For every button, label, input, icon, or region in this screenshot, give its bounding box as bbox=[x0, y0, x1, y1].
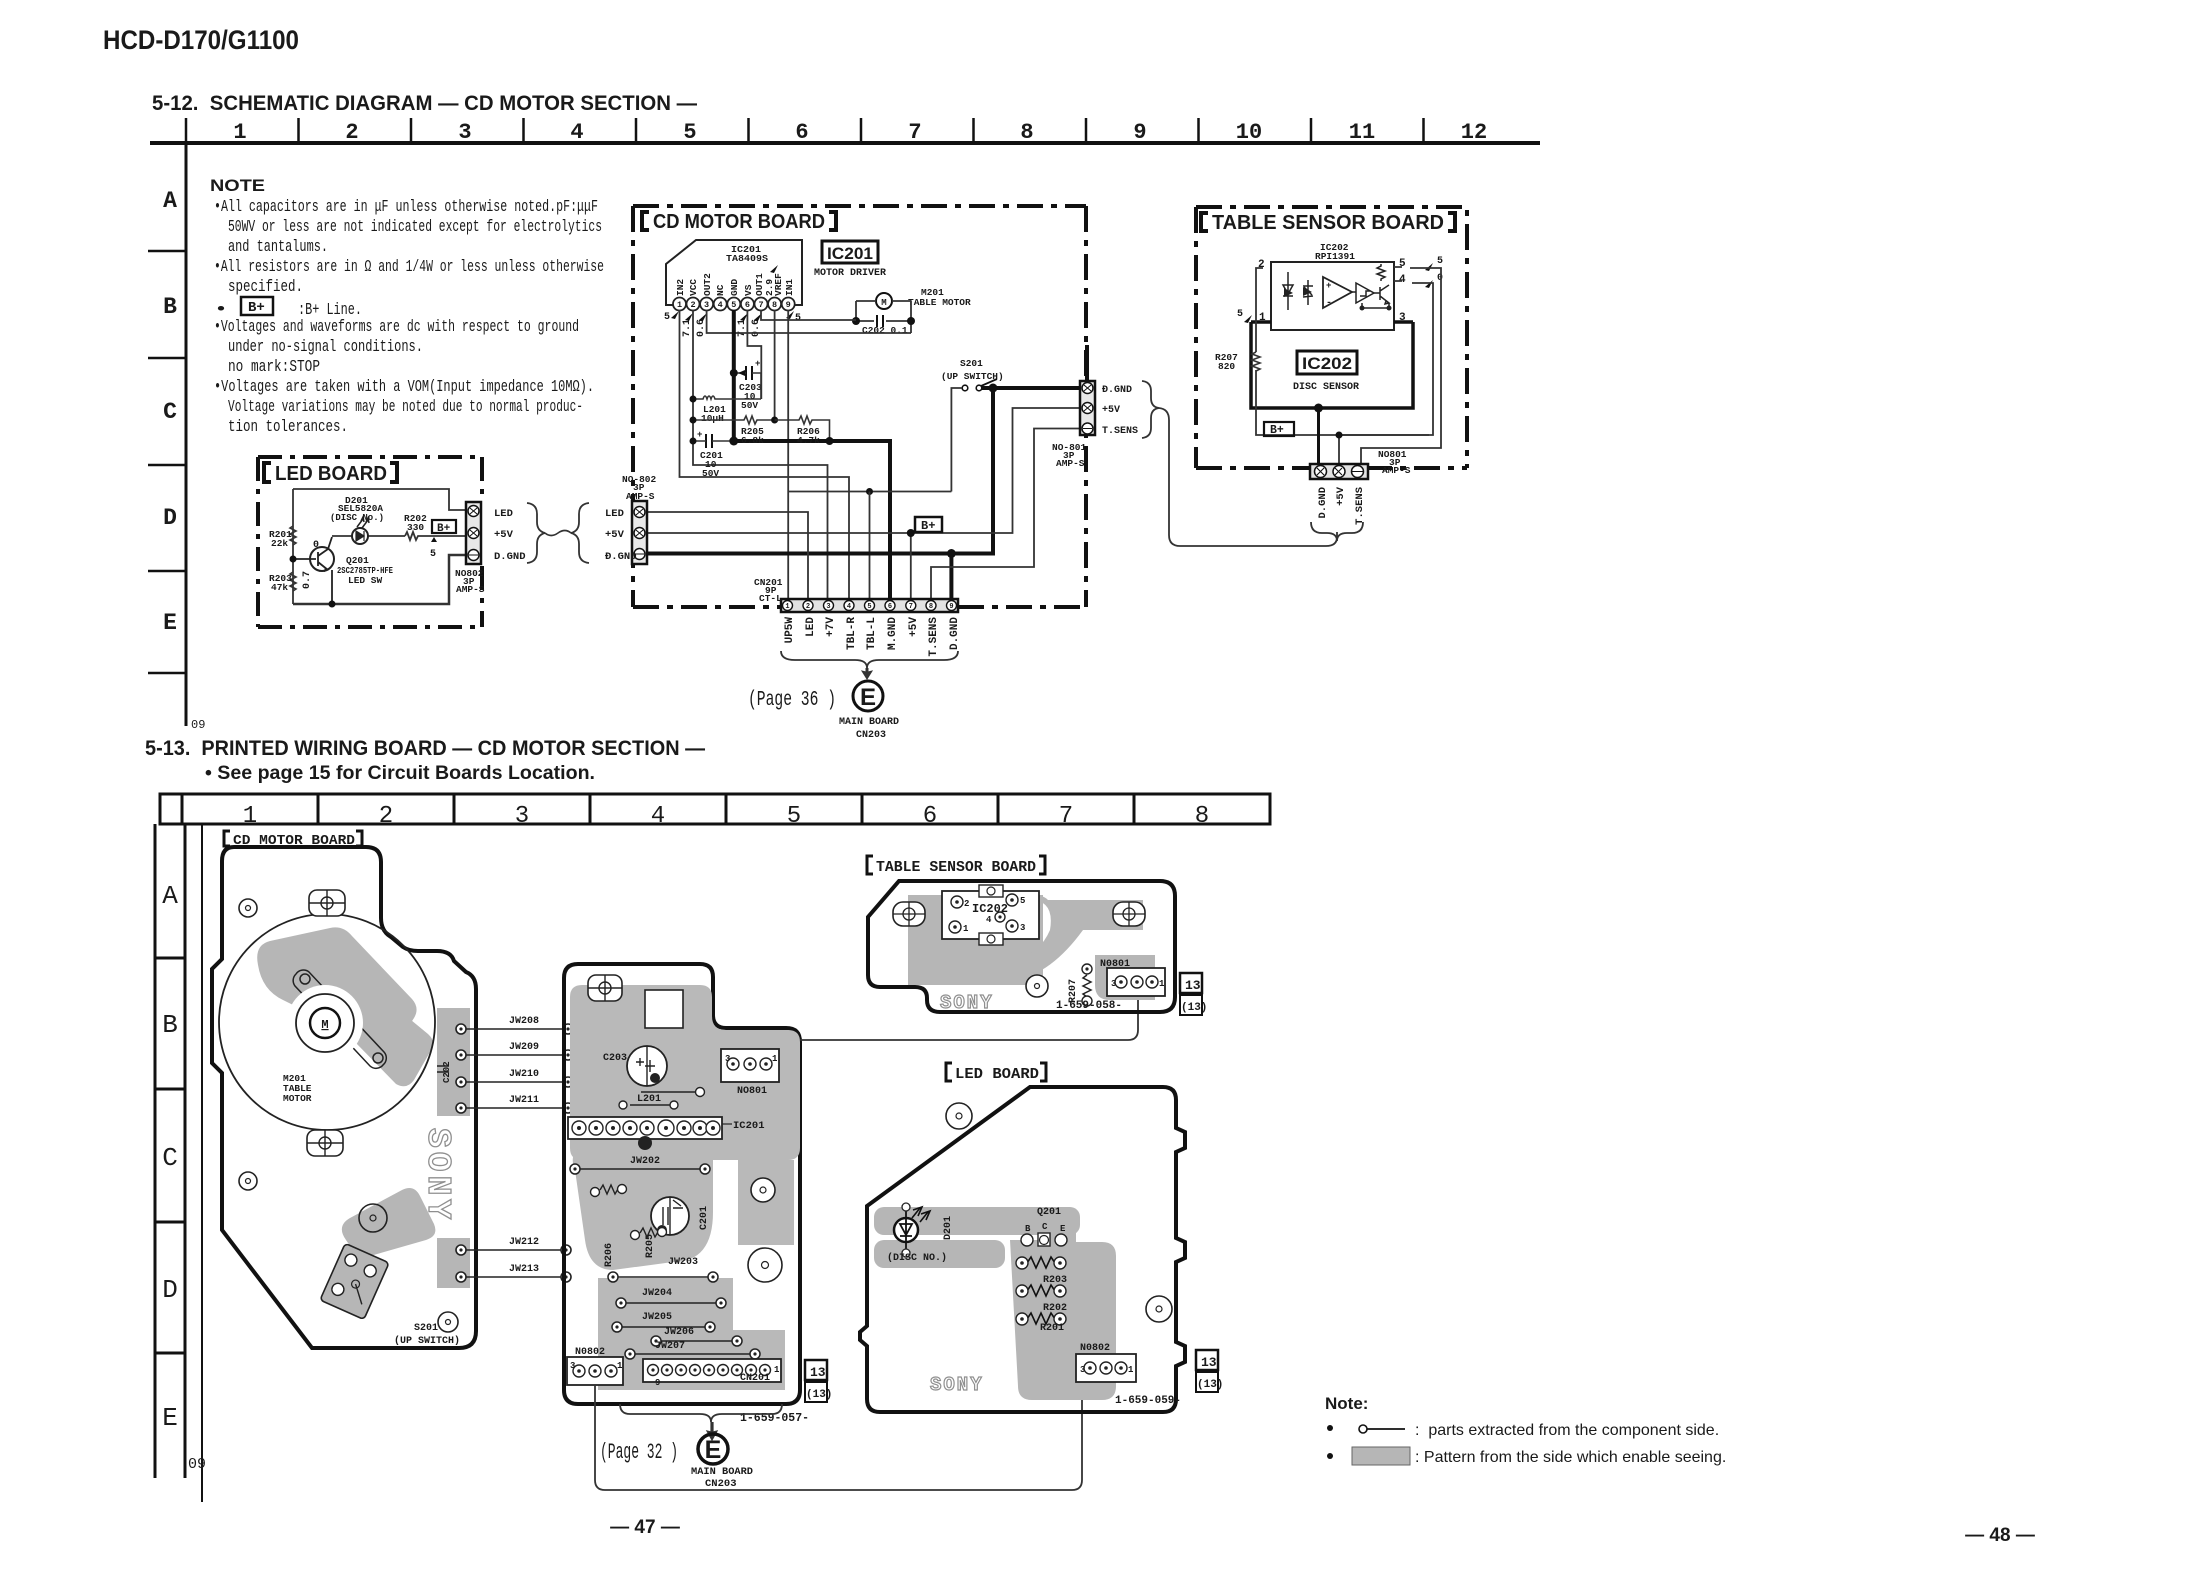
resistor R207 bbox=[1252, 352, 1260, 371]
wire pin7 OUT1 to motor bbox=[761, 310, 856, 320]
legend bullet 2 pattern bbox=[1327, 1453, 1333, 1459]
svg-text:M: M bbox=[321, 1018, 328, 1032]
B+ box table sensor bbox=[1264, 422, 1294, 436]
svg-text:3: 3 bbox=[704, 300, 709, 310]
svg-text:T.SENS: T.SENS bbox=[928, 617, 940, 657]
svg-text:C203: C203 bbox=[603, 1053, 627, 1064]
svg-text:4: 4 bbox=[651, 803, 665, 830]
table sensor copper pattern bbox=[908, 895, 1155, 1000]
svg-text:4: 4 bbox=[1399, 274, 1406, 286]
LED D201 bbox=[332, 535, 405, 537]
svg-text:12: 12 bbox=[1461, 120, 1487, 145]
svg-text:3: 3 bbox=[1111, 979, 1116, 989]
svg-text:E: E bbox=[860, 684, 876, 711]
svg-text:E: E bbox=[1060, 1224, 1066, 1234]
svg-text:10: 10 bbox=[1236, 120, 1262, 145]
connector NO-801 3P bbox=[1080, 381, 1095, 435]
D.GND bold stub above NO-801 bbox=[1085, 345, 1089, 382]
svg-text:JW202: JW202 bbox=[630, 1156, 660, 1167]
svg-text:VCC: VCC bbox=[688, 279, 699, 296]
svg-text:(DISC No.): (DISC No.) bbox=[330, 512, 384, 523]
svg-text:2: 2 bbox=[345, 120, 358, 145]
svg-text:+5V: +5V bbox=[1102, 405, 1120, 416]
svg-text:S201: S201 bbox=[414, 1323, 438, 1334]
svg-text:B: B bbox=[163, 294, 177, 320]
svg-text:330: 330 bbox=[407, 522, 424, 533]
connector CN201 pcb strip bbox=[643, 1359, 781, 1382]
resistor R203 bbox=[290, 572, 296, 591]
svg-text:10μH: 10μH bbox=[701, 413, 724, 424]
svg-text:9: 9 bbox=[786, 300, 791, 310]
svg-text:13: 13 bbox=[1201, 1355, 1217, 1370]
NOTE bullet text bbox=[214, 197, 604, 436]
svg-text:5-13. PRINTED WIRING BOARD —: 5-13. PRINTED WIRING BOARD — CD MOTOR SE… bbox=[145, 737, 705, 760]
svg-text:0.7: 0.7 bbox=[302, 571, 313, 589]
cable brace right of NO-801 bbox=[1142, 381, 1159, 438]
svg-text:1: 1 bbox=[963, 924, 969, 934]
13 flag boxes LED board bbox=[1196, 1350, 1218, 1370]
svg-text:T.SENS: T.SENS bbox=[1354, 487, 1366, 525]
svg-text:Q201: Q201 bbox=[1037, 1207, 1061, 1218]
motor M201 hub bbox=[287, 985, 363, 1061]
svg-text:2: 2 bbox=[1258, 259, 1265, 271]
svg-text:under no-signal conditions.: under no-signal conditions. bbox=[228, 337, 423, 356]
jumper JW-internal above IC201 bbox=[641, 1091, 700, 1093]
svg-text:50WV or less are not indicated: 50WV or less are not indicated except fo… bbox=[228, 217, 602, 236]
svg-text:5: 5 bbox=[795, 313, 801, 324]
svg-text:5: 5 bbox=[664, 312, 670, 323]
svg-text:UP5W: UP5W bbox=[784, 617, 796, 644]
middle pcb copper pattern bbox=[570, 985, 800, 1390]
svg-text:D: D bbox=[162, 1275, 178, 1305]
svg-text:7: 7 bbox=[909, 603, 913, 611]
svg-text:— 47 —: — 47 — bbox=[610, 1517, 680, 1538]
svg-text:M.GND: M.GND bbox=[887, 617, 899, 650]
svg-text:NC: NC bbox=[715, 284, 726, 296]
top ruler numbers 1-12 bbox=[233, 120, 1487, 145]
svg-text:5: 5 bbox=[1237, 309, 1243, 320]
svg-text:8: 8 bbox=[929, 603, 933, 611]
svg-text:3: 3 bbox=[1020, 923, 1025, 933]
left rail wire pin2 bbox=[1256, 268, 1429, 435]
svg-text:9: 9 bbox=[949, 603, 953, 611]
capacitor C203 pcb circle bbox=[627, 1046, 667, 1086]
legend bullet 1 parts extracted bbox=[1327, 1425, 1333, 1431]
svg-text:C: C bbox=[162, 1143, 178, 1173]
resistor R202 bbox=[405, 532, 466, 540]
svg-text:LED BOARD: LED BOARD bbox=[275, 463, 387, 485]
svg-text:9: 9 bbox=[655, 1378, 660, 1388]
svg-text:LED: LED bbox=[494, 508, 513, 520]
motor loop wires bbox=[856, 301, 911, 333]
svg-text:5-12. SCHEMATIC DIAGRAM — CD: 5-12. SCHEMATIC DIAGRAM — CD MOTOR SECTI… bbox=[152, 92, 697, 115]
wire UPSW row bbox=[788, 491, 951, 493]
bottom left ruler letters band bbox=[155, 824, 185, 1478]
svg-text:(Page 32 ): (Page 32 ) bbox=[600, 1440, 678, 1465]
svg-text:JW205: JW205 bbox=[642, 1312, 672, 1323]
connector NO-802 3P bbox=[632, 501, 647, 564]
connector NO801 3P bottom bbox=[1310, 464, 1368, 479]
svg-text:JW213: JW213 bbox=[509, 1264, 539, 1275]
table motor big circle bbox=[219, 914, 435, 1130]
LED BOARD dashed border bbox=[258, 457, 482, 627]
svg-text:2: 2 bbox=[806, 603, 810, 611]
svg-text:•All resistors are in Ω and 1/: •All resistors are in Ω and 1/4W or less… bbox=[214, 257, 604, 276]
svg-text:LED: LED bbox=[805, 617, 817, 637]
svg-text:6: 6 bbox=[923, 803, 937, 830]
wire pin2 VCC to CN201 pin3 +7V bbox=[693, 310, 828, 599]
svg-text:13: 13 bbox=[810, 1365, 826, 1380]
CD MOTOR BOARD dashed border bbox=[633, 206, 1086, 607]
svg-text:4.7k: 4.7k bbox=[797, 435, 820, 446]
svg-text:M: M bbox=[881, 298, 886, 308]
capacitor C203 bbox=[746, 366, 752, 380]
LED board pcb outline bbox=[860, 1087, 1185, 1412]
svg-text:7.1: 7.1 bbox=[737, 319, 748, 337]
svg-text:IC201: IC201 bbox=[827, 244, 873, 263]
svg-text:JW210: JW210 bbox=[509, 1069, 539, 1080]
pcb hole right-bottom bbox=[438, 1312, 458, 1332]
svg-text:+: + bbox=[697, 430, 702, 440]
svg-text:• See page 15 for Circuit Boar: • See page 15 for Circuit Boards Locatio… bbox=[205, 763, 595, 784]
svg-text:1-659-058-: 1-659-058- bbox=[1056, 1000, 1122, 1012]
wire NO802 middle board to LED board NO802 bbox=[595, 1383, 1082, 1490]
svg-text:TBL-L: TBL-L bbox=[866, 617, 878, 650]
wire TBL-L branch to CN201 pin5 bbox=[869, 492, 871, 600]
pwb margin line bbox=[201, 824, 203, 1502]
svg-text:5: 5 bbox=[1399, 258, 1406, 270]
svg-text:TBL-R: TBL-R bbox=[846, 617, 858, 650]
svg-text:•All capacitors are in μF unle: •All capacitors are in μF unless otherwi… bbox=[214, 197, 598, 216]
pcb hole right middle bbox=[751, 1178, 775, 1202]
svg-text:B+: B+ bbox=[248, 300, 265, 316]
svg-text:5: 5 bbox=[430, 549, 436, 560]
brace under NO801 bbox=[1311, 522, 1363, 541]
svg-text:4: 4 bbox=[718, 300, 723, 310]
svg-text:tion tolerances.: tion tolerances. bbox=[228, 417, 348, 436]
svg-text:•Voltages are taken with a VOM: •Voltages are taken with a VOM(Input imp… bbox=[214, 377, 594, 396]
resistor R201 pcb bbox=[1027, 1313, 1055, 1324]
+5V net NO-802 pin2 to NO-801 pin2 and CN201 pin7 bbox=[646, 408, 1082, 533]
svg-text:1: 1 bbox=[1159, 979, 1165, 989]
svg-text:+5V: +5V bbox=[605, 529, 625, 541]
opto internals: LED diode bbox=[1283, 272, 1293, 310]
wire pin9 IN1 to CN201 pin1 UPSW bbox=[787, 310, 789, 599]
svg-text:NOTE: NOTE bbox=[210, 176, 265, 195]
svg-text:JW212: JW212 bbox=[509, 1237, 539, 1248]
resistor R205 bbox=[693, 416, 775, 424]
junction dots motor bbox=[852, 317, 860, 325]
svg-text:no mark:STOP: no mark:STOP bbox=[228, 357, 320, 376]
bottom ruler band bbox=[160, 794, 1270, 824]
LED board copper pattern bbox=[874, 1207, 1116, 1400]
voltage 5 arrow bbox=[431, 537, 437, 542]
svg-text:2: 2 bbox=[690, 300, 695, 310]
svg-text:(Page 36 ): (Page 36 ) bbox=[748, 689, 836, 712]
svg-text:R206: R206 bbox=[604, 1243, 615, 1267]
svg-text:5: 5 bbox=[1020, 896, 1025, 906]
svg-text:LED: LED bbox=[605, 508, 624, 520]
svg-text:2: 2 bbox=[379, 803, 393, 830]
pcb hole LED board top bbox=[946, 1103, 972, 1129]
resistor R201 bbox=[290, 526, 296, 545]
svg-text:Đ.GND: Đ.GND bbox=[1102, 385, 1132, 396]
NO801 signal labels rotated bbox=[1317, 486, 1366, 525]
svg-text:CT-L: CT-L bbox=[759, 593, 782, 604]
pcb hole right lower bbox=[748, 1248, 782, 1282]
svg-text:6: 6 bbox=[795, 120, 808, 145]
svg-text:1: 1 bbox=[772, 1054, 778, 1064]
pcb hole top-left bbox=[239, 899, 257, 917]
svg-text:AMP-S: AMP-S bbox=[456, 584, 485, 595]
wire pin5 GND bold to CN201 pin6 M.GND bbox=[734, 310, 890, 599]
wire pin1 IN2 to CN201 pin4 TBL-R bbox=[680, 310, 850, 599]
svg-text:N0802: N0802 bbox=[1080, 1343, 1110, 1354]
resistor R202 pcb bbox=[1027, 1285, 1055, 1296]
svg-text:09: 09 bbox=[191, 718, 205, 732]
svg-text:JW209: JW209 bbox=[509, 1042, 539, 1053]
svg-text:09: 09 bbox=[188, 1456, 206, 1473]
svg-text:3: 3 bbox=[458, 120, 471, 145]
svg-text:+7V: +7V bbox=[825, 617, 837, 637]
capacitor C203 drop wire bbox=[760, 373, 762, 399]
svg-text:N0801: N0801 bbox=[1100, 959, 1130, 970]
svg-text:7: 7 bbox=[758, 300, 763, 310]
svg-text:RPI1391: RPI1391 bbox=[1315, 251, 1355, 262]
svg-text:N0802: N0802 bbox=[575, 1347, 605, 1358]
IC201 pcb pad strip bbox=[568, 1117, 722, 1139]
middle pcb screw mount bbox=[588, 975, 622, 1001]
TABLE SENSOR BOARD dashed border bbox=[1196, 207, 1467, 468]
svg-text:IN2: IN2 bbox=[675, 279, 686, 296]
svg-text:LED BOARD: LED BOARD bbox=[955, 1066, 1039, 1083]
svg-text:TA8409S: TA8409S bbox=[726, 254, 769, 264]
middle pcb IC area rect bbox=[645, 990, 683, 1028]
svg-text:DISC SENSOR: DISC SENSOR bbox=[1293, 381, 1360, 393]
svg-text:NO801: NO801 bbox=[737, 1086, 767, 1097]
svg-text:VREF: VREF bbox=[773, 273, 784, 296]
CD MOTOR BOARD title bbox=[642, 212, 836, 230]
LED BOARD pcb title bbox=[946, 1063, 1046, 1081]
svg-text:50V: 50V bbox=[741, 400, 758, 411]
svg-text:22k: 22k bbox=[271, 538, 288, 549]
svg-text:AMP-S: AMP-S bbox=[1056, 458, 1085, 469]
screw pad left bbox=[893, 902, 925, 926]
D.GND bold net S201 to NO-801 and CN201 pin9 bbox=[982, 386, 1082, 390]
svg-text:4: 4 bbox=[986, 915, 992, 925]
svg-text:D.GND: D.GND bbox=[494, 551, 526, 563]
LED D201 pcb bbox=[894, 1218, 918, 1242]
svg-text:IC201: IC201 bbox=[733, 1120, 765, 1132]
svg-text:D.GND: D.GND bbox=[949, 617, 961, 650]
svg-text:C201: C201 bbox=[699, 1206, 710, 1230]
left ruler letters A-E bbox=[163, 188, 177, 636]
svg-text:JW211: JW211 bbox=[509, 1095, 539, 1106]
svg-text:1: 1 bbox=[677, 300, 682, 310]
cable wire to table sensor board bbox=[1159, 408, 1337, 546]
svg-text:7: 7 bbox=[908, 120, 921, 145]
svg-text:MOTOR DRIVER: MOTOR DRIVER bbox=[814, 267, 887, 279]
svg-text:8: 8 bbox=[772, 300, 777, 310]
screw pad right bbox=[1113, 902, 1145, 926]
svg-text:3: 3 bbox=[826, 603, 830, 611]
svg-text:5: 5 bbox=[787, 803, 801, 830]
svg-text:(UP SWITCH): (UP SWITCH) bbox=[394, 1335, 460, 1347]
svg-text:C: C bbox=[163, 399, 177, 425]
hole table sensor bbox=[1026, 975, 1048, 997]
svg-text:E: E bbox=[162, 1403, 178, 1433]
svg-text:1: 1 bbox=[774, 1365, 780, 1375]
wire S201 left leg to UPSW row bbox=[951, 388, 962, 492]
wire NO801 middle board to table sensor NO801 bbox=[800, 1000, 1138, 1040]
svg-text:47k: 47k bbox=[271, 582, 288, 593]
svg-text:5: 5 bbox=[1437, 256, 1443, 267]
wire pin6 VS jog bbox=[747, 310, 761, 399]
svg-text:— 48 —: — 48 — bbox=[1965, 1525, 2035, 1546]
svg-text:(13): (13) bbox=[1181, 1002, 1207, 1014]
svg-text:B+: B+ bbox=[921, 519, 935, 533]
svg-text:B+: B+ bbox=[437, 523, 451, 535]
svg-text:+: + bbox=[1326, 281, 1331, 291]
left ruler vertical line bbox=[185, 143, 188, 726]
svg-text:SONY: SONY bbox=[930, 1374, 984, 1396]
svg-text:TABLE SENSOR BOARD: TABLE SENSOR BOARD bbox=[876, 859, 1036, 876]
svg-text:VS: VS bbox=[743, 284, 754, 296]
connector NO802 3P LED board bbox=[466, 502, 481, 564]
inductor L201 bbox=[693, 396, 761, 399]
svg-text:13: 13 bbox=[1185, 978, 1201, 993]
svg-text:MOTOR: MOTOR bbox=[283, 1093, 312, 1104]
LED net NO-802 pin3 to CN201 pin2 bbox=[646, 512, 808, 599]
svg-text:R201: R201 bbox=[1040, 1323, 1064, 1334]
svg-text:E: E bbox=[705, 1436, 722, 1464]
B+ box LED board bbox=[432, 520, 456, 533]
svg-text:1: 1 bbox=[233, 120, 246, 145]
svg-text:6.8k: 6.8k bbox=[741, 435, 764, 446]
svg-text:SONY: SONY bbox=[940, 992, 994, 1014]
svg-text:D201: D201 bbox=[943, 1216, 954, 1240]
screw mount top bbox=[309, 890, 345, 916]
wire pin8 VREF down bbox=[774, 310, 776, 420]
svg-text:4: 4 bbox=[847, 603, 851, 611]
LED BOARD title bbox=[264, 463, 397, 482]
svg-text:LED SW: LED SW bbox=[348, 575, 383, 586]
svg-text:0: 0 bbox=[313, 540, 319, 551]
wire pin3 OUT2 to motor bbox=[707, 310, 911, 333]
svg-text:specified.: specified. bbox=[228, 277, 303, 296]
IC202 pcb body bbox=[942, 891, 1039, 939]
svg-text:820: 820 bbox=[1218, 361, 1235, 372]
svg-text:A: A bbox=[163, 188, 177, 214]
svg-text:: parts extracted from the co: : parts extracted from the component sid… bbox=[1415, 1422, 1719, 1439]
svg-text:B: B bbox=[1025, 1224, 1031, 1234]
opto internals: resistor vertical bbox=[1377, 264, 1385, 281]
left ruler ticks bbox=[148, 251, 186, 673]
pcb hole mid-left bbox=[239, 1172, 257, 1190]
connector CN201 9P strip bbox=[781, 599, 958, 612]
svg-text:8: 8 bbox=[1020, 120, 1033, 145]
svg-text:AMP-S: AMP-S bbox=[626, 491, 655, 502]
13 flag boxes table sensor bbox=[1180, 973, 1202, 993]
svg-text:GND: GND bbox=[729, 279, 740, 296]
svg-text:0.6: 0.6 bbox=[696, 319, 707, 337]
svg-text:TABLE SENSOR BOARD: TABLE SENSOR BOARD bbox=[1212, 212, 1444, 234]
svg-text:: Pattern from the side which: : Pattern from the side which enable see… bbox=[1415, 1449, 1726, 1466]
svg-text:-: - bbox=[1326, 298, 1332, 309]
svg-text:MAIN BOARD: MAIN BOARD bbox=[691, 1466, 753, 1478]
svg-text:1: 1 bbox=[785, 603, 789, 611]
pin voltage values bbox=[664, 312, 801, 337]
connector NO801 table pcb bbox=[1107, 968, 1165, 996]
LED circuit left rail bbox=[292, 489, 294, 604]
svg-text:D.GND: D.GND bbox=[1317, 487, 1329, 519]
middle pcb outline bbox=[564, 964, 800, 1404]
CD MOTOR BOARD pcb title bbox=[224, 831, 362, 846]
svg-text:R203: R203 bbox=[1043, 1275, 1067, 1286]
svg-text:JW207: JW207 bbox=[655, 1341, 685, 1352]
opto IC inner outline bbox=[1271, 262, 1394, 330]
svg-text:L201: L201 bbox=[637, 1094, 661, 1105]
CN201 brace bottom bbox=[620, 1404, 782, 1422]
CD motor pcb outline bbox=[212, 847, 476, 1348]
svg-text:9: 9 bbox=[1133, 120, 1146, 145]
svg-text:(13): (13) bbox=[1197, 1379, 1223, 1391]
arrow to main board bbox=[862, 668, 872, 679]
svg-text:CN203: CN203 bbox=[705, 1478, 737, 1490]
capacitor C201 pcb circle bbox=[651, 1197, 689, 1235]
svg-text:MAIN BOARD: MAIN BOARD bbox=[839, 717, 899, 728]
svg-text:T.SENS: T.SENS bbox=[1102, 426, 1138, 437]
svg-text:5: 5 bbox=[683, 120, 696, 145]
svg-text:1: 1 bbox=[1128, 1365, 1134, 1375]
svg-text:Đ.GND: Đ.GND bbox=[605, 551, 637, 563]
transistor Q201 bbox=[310, 547, 334, 571]
svg-text:IC202: IC202 bbox=[1302, 354, 1352, 373]
resistor R206 bbox=[775, 416, 830, 441]
LED circuit bottom rail bbox=[293, 555, 466, 604]
svg-text:B: B bbox=[162, 1010, 178, 1040]
top ruler line bbox=[150, 141, 1540, 145]
svg-text:6: 6 bbox=[888, 603, 892, 611]
svg-text:OUT2: OUT2 bbox=[702, 273, 713, 296]
svg-text:7: 7 bbox=[1059, 803, 1073, 830]
svg-text:JW206: JW206 bbox=[664, 1327, 694, 1338]
svg-text:D: D bbox=[163, 505, 177, 531]
svg-text:JW208: JW208 bbox=[509, 1016, 539, 1027]
svg-text:CN203: CN203 bbox=[856, 730, 886, 741]
pcb hole LED board right bbox=[1146, 1296, 1172, 1322]
svg-text:Note:: Note: bbox=[1325, 1394, 1368, 1413]
svg-text:B+: B+ bbox=[1270, 424, 1284, 437]
svg-text:+: + bbox=[755, 359, 760, 369]
svg-text:3: 3 bbox=[570, 1361, 575, 1371]
right wires to NO801 bbox=[1361, 267, 1441, 466]
B+ box on +5V wire bbox=[915, 517, 942, 532]
opto internals: photodiode bbox=[1303, 280, 1313, 305]
arrow to main board page32 bbox=[707, 1422, 717, 1440]
svg-text:CN201: CN201 bbox=[740, 1373, 770, 1384]
IC201 reference box bbox=[822, 241, 878, 263]
svg-text:HCD-D170/G1100: HCD-D170/G1100 bbox=[103, 25, 299, 55]
TABLE SENSOR BOARD title bbox=[1201, 213, 1455, 231]
TABLE SENSOR BOARD pcb title bbox=[867, 856, 1045, 874]
svg-text:6: 6 bbox=[745, 300, 750, 310]
opto internals: schmitt triangle bbox=[1356, 283, 1374, 303]
capacitor C202 bbox=[877, 315, 883, 327]
CN201 brace bbox=[781, 651, 958, 668]
svg-text:5: 5 bbox=[867, 603, 871, 611]
svg-text:+5V: +5V bbox=[494, 529, 514, 541]
